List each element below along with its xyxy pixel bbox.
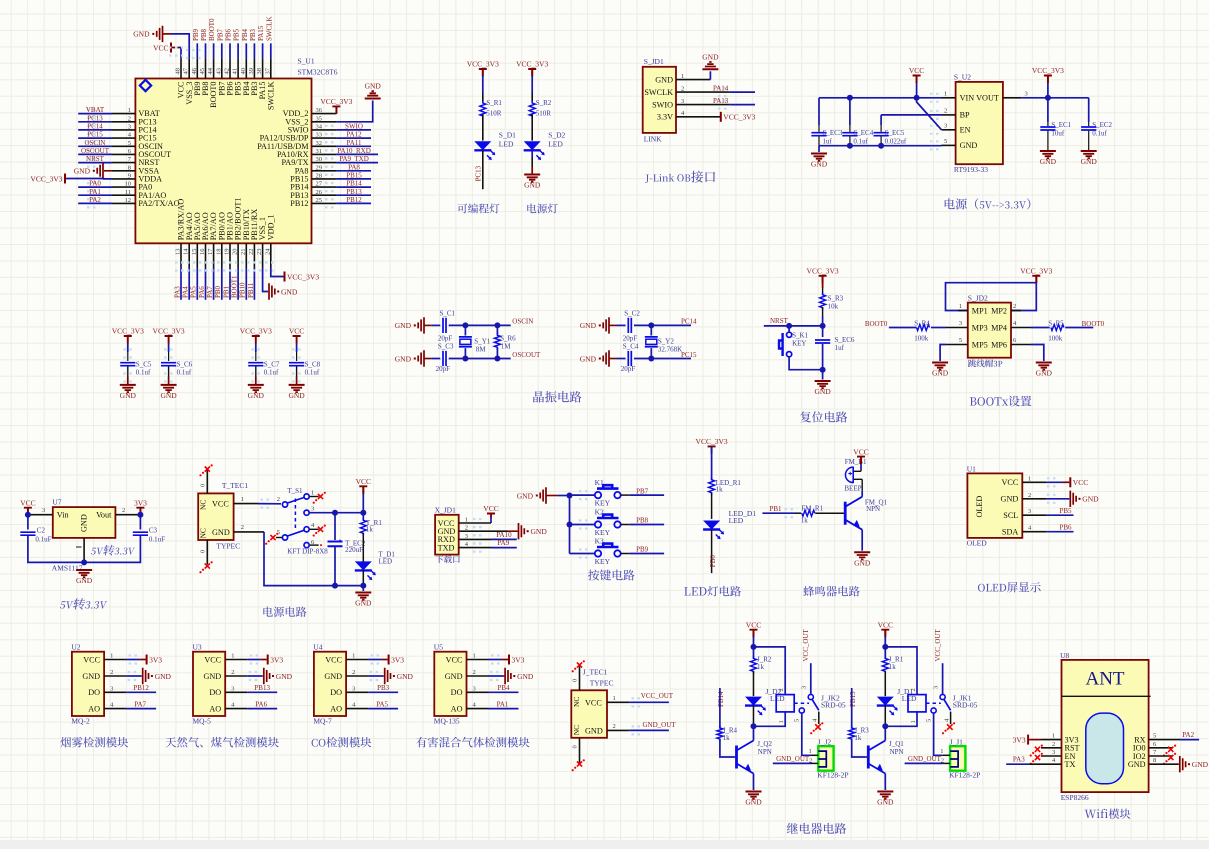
svg-text:GND: GND (1082, 495, 1099, 504)
wire net PB9 (196, 43, 198, 58)
svg-text:NPN: NPN (866, 505, 880, 513)
relay dashed link (794, 702, 809, 704)
wire net GND_OUT (773, 762, 811, 764)
wire net PA2 (78, 202, 112, 204)
svg-text:S_Y1: S_Y1 (474, 338, 490, 346)
mcu pin 5 OSCIN (112, 145, 135, 147)
svg-text:KF128-2P: KF128-2P (949, 771, 980, 780)
key bus vertical wire (569, 496, 571, 554)
caption 继电器电路 (787, 823, 798, 834)
mcu pin 47 VSS_3 (188, 58, 190, 78)
svg-text:OSCIN: OSCIN (512, 318, 533, 326)
svg-text:3V3: 3V3 (1013, 735, 1026, 744)
wire net PB9 (630, 553, 664, 555)
wire bus to K2 (570, 524, 596, 526)
svg-text:SWIO: SWIO (345, 122, 363, 130)
wire net VCC_OUT (629, 701, 669, 703)
svg-text:Vout: Vout (96, 511, 112, 520)
resistor S_R6 1M (496, 325, 498, 334)
wire FM_R1 to base (815, 512, 845, 514)
svg-text:24: 24 (264, 248, 271, 255)
mcu pin 48 VCC (180, 58, 182, 78)
mcu pin 6 OSCOUT (112, 153, 135, 155)
svg-text:VCC: VCC (585, 698, 602, 707)
svg-text:PA10: PA10 (496, 531, 512, 539)
svg-text:PB4: PB4 (241, 28, 249, 41)
mcu pin 8 VSSA (112, 170, 135, 172)
power port VCC_3V3 above S_JD2 (1032, 276, 1040, 284)
svg-text:S_R5: S_R5 (1048, 319, 1064, 327)
svg-text:1: 1 (231, 653, 234, 660)
svg-text:GND: GND (517, 672, 534, 681)
svg-text:GND: GND (960, 141, 978, 150)
switch pin1 nc line (310, 496, 319, 498)
connector pin1 line (676, 79, 710, 81)
switch pin5 nc line (276, 537, 282, 539)
buzzer top pin to VCC (854, 470, 861, 472)
wire gnd to S_C4 (617, 358, 626, 360)
svg-text:39: 39 (248, 68, 255, 75)
svg-text:2: 2 (910, 688, 917, 691)
svg-text:19: 19 (224, 249, 231, 256)
capacitor S_C5 0.1uf (120, 363, 135, 366)
svg-text:2: 2 (241, 524, 244, 531)
capacitor S_EC6 1uf (822, 326, 824, 337)
TYPEC pin2 line (234, 531, 264, 533)
led S_D1 (474, 141, 491, 150)
capacitor S_EC3 1uf (818, 98, 820, 125)
wire net GND_OUT (629, 729, 669, 731)
svg-text:2: 2 (1028, 492, 1031, 499)
svg-text:GND: GND (76, 576, 93, 585)
svg-text:J_TEC1: J_TEC1 (583, 667, 608, 676)
wire net PA9 (491, 547, 517, 549)
wire gnd to S_C2 (617, 324, 626, 326)
svg-text:DO: DO (88, 688, 100, 697)
svg-text:RT9193-33: RT9193-33 (954, 165, 988, 174)
svg-text:3: 3 (42, 507, 45, 514)
power port 3V3 at U3 (267, 655, 269, 665)
svg-text:1: 1 (613, 695, 616, 702)
svg-text:VCC_OUT: VCC_OUT (934, 628, 942, 661)
gnd port at X_JD1 pin2 (508, 530, 518, 532)
mcu pin 24 VDD_1 (270, 243, 272, 267)
svg-text:T_S1: T_S1 (287, 487, 303, 495)
wire net PB8 (630, 524, 664, 526)
svg-text:S_R1: S_R1 (486, 99, 502, 107)
svg-text:1: 1 (128, 107, 131, 114)
gnd symbol under S_C6 (161, 384, 177, 386)
mcu pin 27 PB14 (312, 186, 337, 188)
caption BOOTx设置 (970, 397, 977, 405)
svg-text:VCC: VCC (83, 655, 100, 664)
svg-text:PB8: PB8 (636, 517, 649, 525)
svg-text:GND: GND (1128, 760, 1146, 769)
svg-text:GND: GND (276, 672, 293, 681)
caption OLED屏显示 (978, 584, 985, 592)
svg-text:1: 1 (910, 720, 917, 723)
power port 3V3 at U4 (388, 655, 390, 665)
wire U3 gnd (247, 675, 262, 677)
display U1 OLED body (967, 473, 1022, 538)
wire net GND_OUT (905, 762, 943, 764)
svg-text:U2: U2 (71, 643, 80, 652)
crystal S_Y1 8M (464, 325, 466, 335)
svg-text:VCC_3V3: VCC_3V3 (516, 60, 548, 69)
capacitor C3 0.1uF (139, 515, 141, 530)
wire PB14 down to J_R4 (719, 688, 721, 729)
svg-text:GND: GND (580, 354, 597, 363)
wire S_C1 to OSCIN (449, 324, 511, 326)
wire S_C2 to PC14 (634, 324, 691, 326)
svg-text:TX: TX (1065, 760, 1076, 769)
svg-text:PA12: PA12 (346, 131, 362, 139)
capacitor S_EC4 0.1uf (849, 98, 851, 125)
gnd port at U5 (504, 675, 506, 677)
svg-text:3: 3 (1052, 749, 1055, 756)
svg-text:0.1uf: 0.1uf (853, 138, 868, 146)
mcu pin 22 PB11/RX (253, 243, 255, 267)
wire MP4 to S_R5 (1031, 327, 1050, 329)
svg-text:PB9: PB9 (636, 546, 649, 554)
svg-text:S_C6: S_C6 (177, 361, 193, 369)
crystal S_Y2 32.768K (650, 325, 652, 335)
svg-text:C3: C3 (149, 527, 158, 535)
power port VCC_3V3 above S_C5 (124, 336, 132, 344)
svg-text:DO: DO (330, 688, 342, 697)
svg-text:PB12: PB12 (290, 199, 308, 208)
svg-text:8M: 8M (476, 346, 487, 354)
svg-text:5: 5 (944, 138, 947, 145)
svg-text:BOOT0: BOOT0 (1082, 320, 1105, 328)
svg-text:AO: AO (88, 704, 100, 713)
wire net PA3 (1006, 763, 1029, 765)
wire VDDA to VCC_3V3 (66, 178, 112, 180)
pin MP5 line (946, 344, 968, 346)
caption LED灯电路 (684, 587, 690, 595)
caption 电源电路 (263, 607, 272, 617)
svg-text:0.1uf: 0.1uf (264, 369, 279, 377)
wire net PB6 (229, 43, 231, 58)
gnd symbol under MP5 (932, 362, 948, 364)
wire U2 vcc to 3V3 (126, 659, 139, 661)
wire net PB15 (336, 178, 371, 180)
svg-text:15: 15 (191, 249, 198, 256)
wire bottom node to coil bottom (885, 712, 917, 726)
caption Wifi模块 (1085, 810, 1097, 818)
svg-text:GND: GND (355, 599, 372, 608)
resistor S_R1 510R (480, 101, 486, 119)
svg-text:TYPEC: TYPEC (216, 542, 240, 551)
svg-text:PB1: PB1 (222, 285, 230, 298)
svg-text:KF128-2P: KF128-2P (817, 771, 848, 780)
svg-text:GND: GND (80, 514, 89, 532)
svg-text:2: 2 (944, 107, 947, 114)
wire pin1 to VCC (1047, 481, 1063, 483)
sensor U5 MQ-135 body (434, 652, 466, 716)
svg-text:GND: GND (133, 30, 150, 39)
wire net PA2 (1180, 739, 1199, 741)
wire base resistor to base (720, 739, 734, 757)
power port VCC_3V3 above S_R2 (528, 69, 536, 77)
wire net PB10 (245, 268, 247, 300)
buzzer FM_B1 BEEP (845, 467, 853, 483)
wire U5 vcc to 3V3 (489, 659, 502, 661)
mcu pin 29 PA8 (312, 170, 337, 172)
wire S_R4 to BOOT0 (889, 327, 917, 329)
pin6 line nc (1149, 747, 1172, 749)
wire net PA3 (180, 268, 182, 300)
svg-text:29: 29 (316, 164, 323, 171)
mcu U1 body STM32C8T6 (135, 79, 311, 244)
power port VCC_3V3 above S_R1 (479, 69, 487, 77)
svg-text:S_EC5: S_EC5 (885, 129, 905, 137)
mcu pin 33 PA12/USB/DP (312, 137, 337, 139)
svg-text:S_D2: S_D2 (548, 131, 565, 140)
svg-text:FM_R1: FM_R1 (801, 505, 823, 513)
svg-text:S_K1: S_K1 (792, 331, 808, 339)
svg-text:PB1: PB1 (770, 505, 783, 513)
svg-text:S_EC3: S_EC3 (823, 129, 843, 137)
svg-text:VCC_3V3: VCC_3V3 (320, 97, 352, 106)
wire MP6 to GND (1031, 345, 1044, 362)
svg-text:3V3: 3V3 (391, 655, 404, 664)
power port VCC at OLED (1069, 477, 1071, 487)
svg-text:1: 1 (1028, 475, 1031, 482)
svg-text:1uf: 1uf (823, 138, 833, 146)
wire C3 to gnd rail (84, 536, 140, 562)
svg-text:GND: GND (814, 387, 831, 396)
svg-text:OSCOUT: OSCOUT (81, 147, 110, 155)
svg-text:GND: GND (811, 160, 828, 169)
regulator S_U2 body RT9193-33 (956, 82, 1003, 164)
svg-text:0: 0 (572, 679, 579, 682)
gnd symbol power circuit (355, 592, 371, 594)
svg-text:SRD-05: SRD-05 (821, 701, 846, 710)
svg-text:VCC: VCC (356, 477, 371, 486)
svg-text:PA1: PA1 (497, 700, 509, 708)
wire VCC_3V3 to S_R2 (531, 75, 533, 93)
svg-text:U3: U3 (193, 643, 202, 652)
svg-text:LED: LED (548, 140, 563, 149)
gnd symbol under MP6 (1036, 362, 1052, 364)
pin4 line (1029, 763, 1061, 765)
wire net PB11 (253, 268, 255, 300)
wire base resistor to base (852, 739, 866, 757)
terminal pin2 line (811, 762, 819, 764)
svg-text:BOOT0: BOOT0 (208, 18, 216, 41)
svg-text:PC14: PC14 (87, 122, 103, 130)
svg-text:5: 5 (925, 719, 932, 722)
svg-text:BOOT1: BOOT1 (231, 275, 239, 298)
svg-text:PA4: PA4 (182, 286, 190, 298)
wire net PB5 (1047, 514, 1074, 516)
svg-text:PA7: PA7 (206, 286, 214, 298)
gnd symbol relay J_Q2 (746, 791, 762, 793)
wire VCC_3V3 to S_R1 (482, 75, 484, 93)
svg-text:GND: GND (1001, 495, 1019, 504)
svg-text:S_C7: S_C7 (264, 361, 280, 369)
svg-text:PB13: PB13 (346, 188, 362, 196)
svg-text:VCC_3V3: VCC_3V3 (112, 327, 144, 336)
svg-text:0: 0 (572, 745, 579, 748)
svg-text:OSCOUT: OSCOUT (512, 351, 541, 359)
svg-text:VCC_3V3: VCC_3V3 (1020, 267, 1052, 276)
svg-text:40: 40 (240, 68, 247, 75)
svg-text:BEEP: BEEP (844, 485, 861, 493)
svg-text:510R: 510R (486, 110, 502, 118)
svg-text:MP3: MP3 (972, 323, 988, 332)
pin1 line (1041, 739, 1062, 741)
svg-text:220uF: 220uF (345, 546, 363, 554)
key K1 (595, 492, 601, 498)
wire MP5 to GND (940, 345, 945, 362)
svg-text:PA5: PA5 (190, 286, 198, 298)
svg-text:VCC: VCC (325, 655, 342, 664)
svg-text:PA7: PA7 (134, 700, 146, 708)
key K1 right pin (621, 494, 630, 496)
svg-text:PB15: PB15 (346, 171, 362, 179)
svg-text:1k: 1k (889, 663, 897, 671)
wire pin1 to VCC port (490, 518, 492, 524)
svg-text:PB8: PB8 (200, 28, 208, 41)
resistor J_R2 1k (753, 647, 755, 659)
power port VCC above buzzer (857, 457, 865, 465)
svg-text:GND: GND (877, 798, 894, 807)
svg-text:10uf: 10uf (1051, 130, 1065, 138)
svg-text:1k: 1k (757, 663, 765, 671)
wire net PB12 (336, 202, 371, 204)
svg-text:48: 48 (175, 68, 182, 75)
svg-text:S_U2: S_U2 (954, 73, 971, 82)
mcu pin 41 PB5 (237, 58, 239, 78)
svg-text:22: 22 (248, 249, 255, 256)
svg-text:GND: GND (120, 391, 137, 400)
wire net OSCIN (78, 145, 112, 147)
wire VCC_3V3 to S_C7 (255, 344, 257, 353)
svg-text:10k: 10k (828, 302, 839, 310)
gnd symbol at mcu VSS_2 (365, 98, 381, 100)
wire split to coil top (885, 647, 917, 695)
power port VCC_3V3 at mcu VDD_2 pin36 (332, 106, 340, 114)
svg-text:GND_OUT: GND_OUT (776, 755, 810, 763)
jumper S_JD2 body (968, 303, 1011, 358)
capacitor S_EC1 10uf (1047, 98, 1049, 122)
wire net PB13 (336, 194, 371, 196)
svg-text:1k: 1k (366, 526, 374, 534)
wire net VBAT (78, 113, 112, 115)
svg-text:GND: GND (365, 82, 382, 91)
svg-text:PB7: PB7 (636, 487, 649, 495)
wire split to coil top (754, 647, 786, 695)
svg-text:GND: GND (281, 287, 298, 296)
terminal pin2 line (942, 762, 950, 764)
svg-text:PB6: PB6 (1060, 523, 1073, 531)
svg-text:23: 23 (256, 249, 263, 256)
gnd port at U3 (262, 675, 264, 677)
key K2 (595, 521, 601, 527)
wire net PA7 (126, 708, 156, 710)
svg-text:GND: GND (745, 798, 762, 807)
svg-text:VCC_3V3: VCC_3V3 (240, 327, 272, 336)
svg-text:1: 1 (311, 489, 314, 496)
svg-text:LED: LED (499, 140, 514, 149)
wire net PA11 (336, 145, 371, 147)
ANT divider line (1062, 695, 1151, 697)
svg-text:PB12: PB12 (133, 684, 149, 692)
svg-text:S_C5: S_C5 (136, 361, 152, 369)
wire net OSCOUT (78, 153, 112, 155)
svg-text:LED: LED (729, 516, 744, 525)
wire U2 gnd (126, 675, 141, 677)
caption J-Link OB接口 (645, 174, 649, 182)
svg-text:1: 1 (778, 720, 785, 723)
svg-text:2: 2 (613, 723, 616, 730)
svg-text:S_C1: S_C1 (440, 310, 456, 318)
svg-text:PC14: PC14 (681, 318, 697, 326)
power port 3V3 at U8 (1027, 735, 1029, 745)
svg-text:MQ-2: MQ-2 (71, 717, 90, 726)
wire U4 vcc to 3V3 (368, 659, 381, 661)
capacitor S_C1 20pF (443, 318, 446, 333)
wire net PB0 (221, 268, 223, 300)
caption 蜂鸣器电路 (803, 586, 814, 597)
svg-text:SWCLK: SWCLK (266, 81, 275, 110)
svg-text:S_EC6: S_EC6 (835, 336, 855, 344)
svg-text:2: 2 (110, 669, 113, 676)
resistor S_R5 100k (1051, 325, 1064, 331)
wire net PB7 (221, 43, 223, 58)
sensor U3 MQ-5 body (193, 652, 225, 716)
caption 有害混合气体检测模块 (416, 737, 427, 748)
resistor T_R1 1k (362, 513, 364, 521)
svg-text:0.022uf: 0.022uf (885, 138, 907, 146)
svg-text:1: 1 (110, 653, 113, 660)
svg-text:PB3: PB3 (249, 28, 257, 41)
relay switch J_JK2 SRD-05 (808, 694, 813, 699)
svg-text:GND: GND (580, 321, 597, 330)
pin MP6 line (1011, 344, 1031, 346)
svg-text:GND: GND (1081, 157, 1098, 166)
wire net PA10_RXD (336, 153, 378, 155)
svg-text:GND: GND (160, 391, 177, 400)
svg-text:VCC: VCC (20, 498, 35, 507)
mcu pin 21 PB10/TX (245, 243, 247, 267)
svg-text:NPN: NPN (758, 748, 772, 756)
svg-text:30: 30 (316, 156, 323, 163)
svg-text:38: 38 (256, 68, 263, 75)
svg-text:VCC_OUT: VCC_OUT (641, 692, 674, 700)
svg-text:J_J1: J_J1 (950, 737, 964, 746)
svg-text:SWCLK: SWCLK (644, 88, 673, 97)
svg-text:3: 3 (801, 686, 808, 689)
key K3 right pin (621, 553, 630, 555)
svg-text:U7: U7 (52, 498, 61, 507)
svg-text:1k: 1k (723, 734, 731, 742)
module U8 ESP8266 body (1062, 660, 1149, 792)
mcu pin 37 SWCLK (270, 58, 272, 78)
svg-text:32.768K: 32.768K (658, 346, 682, 354)
relay pin4 nc (950, 712, 952, 724)
svg-text:GND: GND (702, 52, 719, 61)
wire net PA5 (368, 708, 398, 710)
svg-text:5: 5 (1153, 733, 1156, 740)
svg-text:S_D1: S_D1 (499, 131, 516, 140)
svg-text:3: 3 (681, 98, 684, 105)
gnd symbol under S_EC2 (1081, 150, 1097, 152)
bottom scrollbar strip (0, 840, 1209, 849)
svg-text:PC13: PC13 (474, 165, 482, 181)
